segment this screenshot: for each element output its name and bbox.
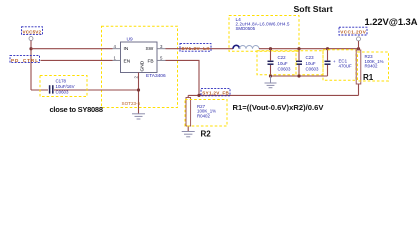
wire VCC5V2 vertical xyxy=(30,41,32,91)
R27 highlight box xyxy=(185,100,227,127)
svg-text:10uF: 10uF xyxy=(278,61,288,66)
inductor L4 labels xyxy=(236,17,291,31)
C23 highlight box xyxy=(296,51,323,75)
node junction GND/C178 xyxy=(137,88,140,91)
pin 4 stub xyxy=(113,48,121,50)
svg-text:C178: C178 xyxy=(56,78,67,83)
svg-text:+: + xyxy=(333,59,336,64)
pin 1 stub xyxy=(113,59,121,61)
ground under R27 xyxy=(182,132,195,137)
wire ground rail under caps xyxy=(271,75,328,77)
svg-text:VCC1.2DV: VCC1.2DV xyxy=(340,30,366,35)
svg-text:C23: C23 xyxy=(306,55,315,60)
pin 3 stub xyxy=(157,48,166,50)
resistor R27 xyxy=(186,95,191,131)
ground under caps xyxy=(265,76,277,88)
svg-text:ETA3406: ETA3406 xyxy=(146,73,166,79)
svg-text:SY1.2V_FB: SY1.2V_FB xyxy=(202,90,229,95)
C22 labels xyxy=(278,55,291,71)
wire to IN pin xyxy=(31,48,113,50)
svg-text:C0603: C0603 xyxy=(306,66,319,71)
svg-text:10uF: 10uF xyxy=(306,61,316,66)
capacitor C23 xyxy=(296,49,302,76)
pin 2 GND stub down xyxy=(138,73,140,114)
pin 5 stub xyxy=(157,59,166,61)
svg-text:Soft Start: Soft Start xyxy=(294,4,333,14)
svg-text:470UF: 470UF xyxy=(339,64,352,69)
big yellow highlight box around U9 xyxy=(102,26,178,107)
R27 labels xyxy=(197,104,216,118)
resistor R23 xyxy=(356,49,361,96)
net label VCC5V2 xyxy=(22,27,43,35)
port circle VCC1.2DV xyxy=(357,37,361,41)
svg-text:R0402: R0402 xyxy=(365,64,378,69)
inductor L4 xyxy=(233,45,259,48)
svg-text:C0603: C0603 xyxy=(56,90,69,95)
svg-text:IN: IN xyxy=(124,46,129,52)
svg-text:GND: GND xyxy=(140,60,146,71)
node junction gnd rail C22 xyxy=(269,74,272,77)
net label SY1.2V_LX xyxy=(180,44,211,52)
wire FB pin to divider xyxy=(166,60,200,95)
port circle VCC5V2 xyxy=(29,37,33,41)
ground under U9 xyxy=(132,114,145,119)
svg-text:R0402: R0402 xyxy=(197,113,210,118)
net label SY_1.2V_FB xyxy=(201,89,230,96)
L4 highlight box xyxy=(229,16,299,52)
capacitor C178 xyxy=(31,85,139,93)
svg-text:close to SY8088: close to SY8088 xyxy=(50,105,104,114)
net label VCC1.2DV xyxy=(339,27,367,35)
C23 labels xyxy=(306,55,319,71)
C178 highlight box xyxy=(40,76,87,97)
svg-text:R2: R2 xyxy=(201,130,212,139)
svg-text:R1: R1 xyxy=(363,73,374,82)
wire output rail xyxy=(259,48,359,50)
EC1 labels xyxy=(333,58,352,68)
node junction FB xyxy=(197,94,200,97)
svg-text:R1=((Vout-0.6V)xR2)/0.6V: R1=((Vout-0.6V)xR2)/0.6V xyxy=(233,103,325,112)
EC1 highlight box xyxy=(323,50,356,81)
svg-text:SMD0505: SMD0505 xyxy=(236,26,256,31)
capacitor EC1 electrolytic xyxy=(325,49,331,76)
svg-text:U9: U9 xyxy=(127,37,133,43)
node junction C22 xyxy=(269,47,272,50)
node junction gnd rail C23 xyxy=(297,74,300,77)
svg-text:EN: EN xyxy=(124,58,131,64)
svg-text:C0603: C0603 xyxy=(278,66,291,71)
wire port to rail xyxy=(358,41,360,49)
C178 value labels xyxy=(56,78,75,94)
svg-text:FB: FB xyxy=(148,58,154,64)
svg-text:SOT23-5: SOT23-5 xyxy=(122,101,141,106)
wire SW to inductor xyxy=(166,48,234,50)
node junction C23 xyxy=(297,47,300,50)
R23 highlight box xyxy=(358,52,389,81)
wire FB node horizontal xyxy=(188,94,358,96)
node junction EC1 xyxy=(326,47,329,50)
node junction output xyxy=(357,47,360,50)
svg-text:1.22V@1.3A: 1.22V@1.3A xyxy=(365,16,418,27)
R23 labels xyxy=(365,54,384,68)
C22 highlight box xyxy=(257,51,296,75)
svg-text:10uF/16V: 10uF/16V xyxy=(56,84,75,89)
op-amp U1 region: IC U9 body xyxy=(121,42,158,73)
capacitor C22 xyxy=(268,49,274,76)
net label PD_CTRL xyxy=(10,56,40,63)
svg-text:VCC5V2: VCC5V2 xyxy=(23,29,42,34)
svg-text:C22: C22 xyxy=(278,55,287,60)
node junction IN xyxy=(29,47,32,50)
wire to EN pin xyxy=(41,59,113,61)
svg-text:SY1.2V_LX: SY1.2V_LX xyxy=(182,46,211,51)
svg-text:SW: SW xyxy=(146,46,154,52)
